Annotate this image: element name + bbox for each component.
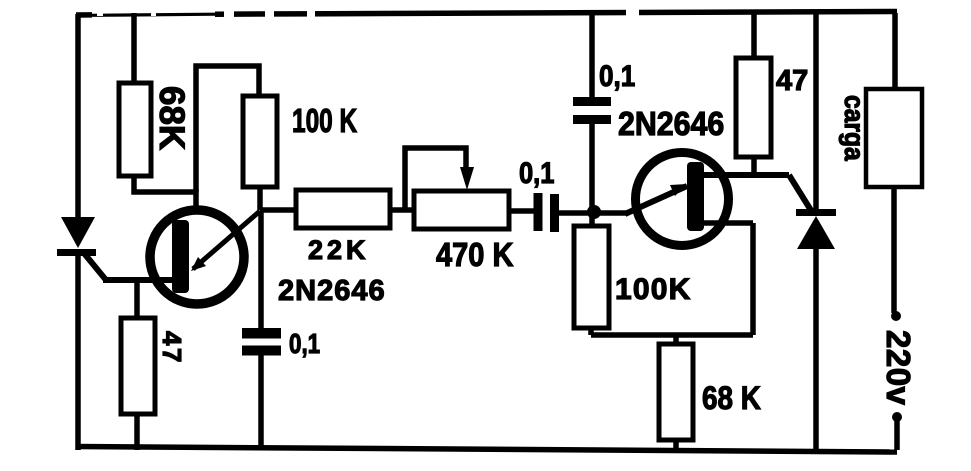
svg-text:100K: 100K bbox=[615, 273, 692, 306]
svg-text:47: 47 bbox=[776, 65, 808, 97]
svg-text:carga: carga bbox=[839, 95, 871, 161]
svg-text:68K: 68K bbox=[152, 86, 191, 150]
svg-text:68 K: 68 K bbox=[702, 381, 761, 416]
svg-text:2N2646: 2N2646 bbox=[278, 275, 386, 307]
svg-text:2N2646: 2N2646 bbox=[618, 105, 724, 142]
svg-text:0,1: 0,1 bbox=[599, 59, 635, 92]
svg-text:22K: 22K bbox=[308, 235, 370, 265]
svg-text:220v: 220v bbox=[880, 330, 917, 406]
svg-text:0,1: 0,1 bbox=[519, 156, 554, 189]
svg-text:47: 47 bbox=[157, 331, 187, 365]
svg-text:0,1: 0,1 bbox=[289, 329, 320, 360]
svg-text:100 K: 100 K bbox=[292, 104, 357, 140]
svg-text:470 K: 470 K bbox=[436, 236, 514, 273]
